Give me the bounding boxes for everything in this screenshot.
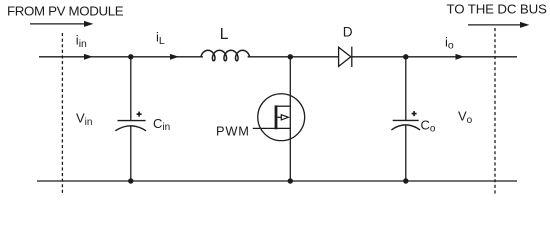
junction node top C_o [403, 54, 408, 59]
MOSFET gate bar [275, 105, 278, 129]
branch wire C_o [405, 57, 407, 120]
MOSFET top connector [275, 105, 290, 107]
wire top mid segment [248, 56, 339, 58]
svg-text:PWM: PWM [216, 124, 250, 139]
current arrow i_o [456, 54, 465, 60]
svg-text:L: L [220, 26, 229, 43]
svg-text:iL: iL [156, 30, 165, 47]
input flow arrow [30, 21, 93, 27]
branch wire C_in [130, 57, 132, 120]
wire top left segment [39, 56, 203, 58]
svg-text:D: D [343, 24, 353, 39]
svg-text:Co: Co [421, 118, 436, 135]
junction node bottom C_in [128, 178, 133, 183]
svg-text:io: io [445, 35, 454, 52]
svg-text:TO THE DC BUS: TO THE DC BUS [447, 1, 548, 16]
svg-text:Vo: Vo [458, 109, 473, 126]
junction node bottom FET [288, 178, 293, 183]
junction node top FET [288, 54, 293, 59]
dashed boundary left [61, 33, 63, 193]
wire top right segment [352, 56, 517, 58]
svg-text:FROM PV MODULE: FROM PV MODULE [7, 3, 124, 18]
current arrow i_L [170, 54, 179, 60]
MOSFET gate lead and bottom connector [253, 127, 290, 129]
MOSFET arrow [277, 116, 281, 118]
current arrow i_in [84, 54, 93, 60]
inductor L coil [201, 50, 250, 61]
wire bottom [37, 180, 517, 182]
junction node top C_in [128, 54, 133, 59]
output flow arrow [468, 22, 529, 28]
MOSFET Q1 body circle [258, 94, 305, 141]
svg-text:Vin: Vin [76, 111, 92, 128]
plus sign C_o [412, 111, 417, 116]
capacitor C_o plates [393, 119, 419, 121]
junction node bottom C_o [403, 178, 408, 183]
svg-text:iin: iin [76, 33, 87, 50]
svg-text:Cin: Cin [153, 116, 170, 133]
plus sign C_in [137, 112, 142, 117]
dashed boundary right [494, 28, 496, 194]
diode D [339, 47, 352, 67]
capacitor C_in plates [118, 120, 146, 122]
MOSFET branch wire [289, 57, 291, 181]
